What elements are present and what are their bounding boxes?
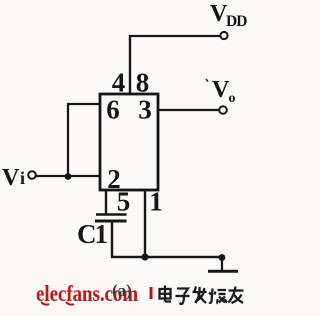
wire Vi to pin 2 bbox=[36, 175, 101, 177]
watermark chinese 发 bbox=[193, 287, 207, 304]
svg-text:(a): (a) bbox=[112, 281, 132, 300]
watermark chinese 烧 bbox=[209, 289, 227, 304]
wire VDD horizontal bbox=[129, 35, 221, 37]
svg-text:4: 4 bbox=[112, 68, 126, 98]
svg-text:6: 6 bbox=[106, 95, 120, 125]
wire pin 5 down to C1 bbox=[105, 190, 107, 214]
watermark chinese 电 bbox=[160, 286, 172, 302]
svg-text:1: 1 bbox=[149, 187, 163, 217]
wire bottom horizontal bbox=[111, 256, 221, 258]
wire VDD vertical to pin 8 bbox=[129, 35, 131, 94]
svg-text:V: V bbox=[2, 165, 20, 191]
capacitor C1 bottom plate bbox=[95, 220, 127, 223]
junction dot at ground bbox=[219, 254, 226, 261]
junction dot pins 2-6 tie bbox=[65, 173, 72, 180]
wire pin 3 to Vo bbox=[158, 109, 220, 111]
junction dot pin 1 / ground rail bbox=[141, 253, 148, 260]
terminal Vi bbox=[28, 171, 36, 179]
wire pin 1 down bbox=[144, 190, 146, 257]
watermark chinese 友 bbox=[229, 287, 244, 304]
IC U1 (555 timer box) bbox=[100, 94, 158, 190]
watermark red tick bbox=[150, 287, 153, 299]
svg-text:C1: C1 bbox=[77, 219, 107, 249]
wire branch vertical pins 6-2 bbox=[67, 103, 69, 177]
capacitor C1 top plate bbox=[96, 213, 127, 216]
terminal Vo bbox=[219, 106, 227, 114]
wire pin 6 horizontal bbox=[67, 103, 100, 105]
stray tick mark bbox=[206, 79, 208, 82]
ground bbox=[221, 257, 223, 270]
svg-text:o: o bbox=[229, 91, 236, 106]
svg-text:5: 5 bbox=[117, 187, 131, 217]
wire below C1 bbox=[111, 222, 113, 258]
svg-text:3: 3 bbox=[138, 95, 152, 125]
svg-text:DD: DD bbox=[226, 13, 247, 30]
svg-text:i: i bbox=[20, 168, 25, 188]
svg-text:8: 8 bbox=[136, 68, 150, 98]
watermark flourish under f bbox=[66, 302, 74, 305]
terminal VDD bbox=[220, 32, 227, 39]
watermark elecfans.com bbox=[36, 280, 138, 306]
watermark chinese 子 bbox=[176, 289, 190, 304]
watermark flourish under e bbox=[41, 302, 49, 305]
svg-text:V: V bbox=[212, 77, 230, 103]
